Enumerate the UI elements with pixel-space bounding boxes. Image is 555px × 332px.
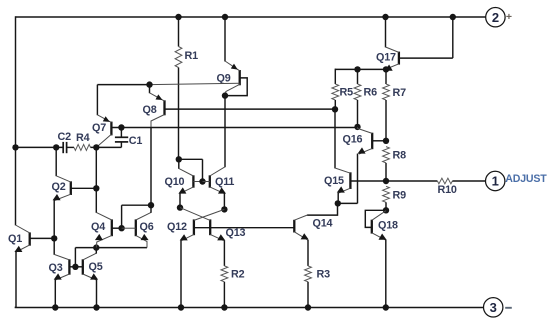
junction Q3 Q5 bases: [72, 264, 78, 270]
svg-text:Q9: Q9: [217, 73, 231, 85]
wire R8 bottom to adjust node: [385, 163, 387, 181]
label R10: [438, 184, 457, 196]
transistor Q5: [83, 253, 98, 280]
wire Q15 emitter down: [337, 193, 339, 204]
junction Q2 base / Q4 collector: [93, 185, 99, 191]
wire Q12 emitter to - rail: [180, 240, 182, 307]
svg-text:Q18: Q18: [378, 219, 398, 231]
label Q3: [49, 262, 63, 274]
label C1: [129, 135, 143, 147]
wire Q9 emitter from + rail: [224, 17, 226, 62]
svg-text:R5: R5: [340, 86, 354, 98]
wire Q1 base: [30, 237, 55, 239]
label Q9: [217, 73, 231, 85]
label Q15: [324, 175, 344, 187]
transistor Q15: [335, 168, 350, 193]
svg-text:R8: R8: [393, 149, 407, 161]
transistor Q12: [180, 209, 225, 240]
capacitor C1: [115, 128, 128, 148]
wire Q11 base stub: [203, 181, 210, 183]
label Q10: [165, 176, 185, 188]
wire Q4 base: [112, 227, 122, 229]
label Q1: [8, 233, 22, 245]
wire R10 to pin 1: [452, 180, 485, 182]
svg-text:R3: R3: [317, 268, 331, 280]
wire current-mirror rail (Q3Q5 bases/Q4 emitter/Q6 emitter): [75, 247, 147, 249]
wire Q16 base: [372, 140, 386, 142]
resistor R8: [383, 147, 390, 163]
label R6: [364, 86, 378, 98]
label R3: [317, 268, 331, 280]
wire Q4 collector column: [95, 147, 97, 212]
junction Q4 Q6 bases: [118, 225, 124, 231]
transistor Q17: [385, 47, 399, 71]
wire Q3 Q5 base tie: [69, 266, 82, 268]
junction Q4 emitter / Q5 collector: [93, 244, 99, 250]
junction Q11 emitter / Q12 collector: [221, 206, 227, 212]
svg-text:Q1: Q1: [8, 233, 22, 245]
svg-text:Q4: Q4: [91, 221, 105, 233]
transistor Q2: [53, 176, 71, 201]
wire R6 top stub: [357, 69, 359, 84]
transistor Q11: [210, 167, 226, 194]
junction R7 top / Q17 emitter: [383, 66, 389, 72]
label R4: [76, 132, 90, 144]
wire Q17 base: [399, 17, 453, 58]
resistor R6: [354, 84, 361, 100]
label Q2: [52, 181, 66, 193]
junction node B (Q7/Q8 emitters / Q9 base): [146, 81, 152, 87]
svg-text:R4: R4: [76, 132, 90, 144]
label Q18: [378, 219, 398, 231]
wire Q2 collector: [55, 147, 57, 176]
resistor R2: [221, 266, 228, 282]
label -: [505, 307, 512, 309]
label R1: [185, 50, 199, 62]
wire Q14 emitter to R3: [307, 240, 309, 266]
label Q14: [313, 217, 333, 229]
wire adjust line (Q15 base to R10): [350, 180, 437, 182]
resistor R7: [383, 84, 390, 100]
transistor Q4: [95, 212, 112, 247]
wire Q2 base to Q4 collector column: [71, 187, 97, 189]
svg-text:Q15: Q15: [324, 175, 344, 187]
wire Q10 collector: [178, 159, 180, 169]
label Q4: [91, 221, 105, 233]
junction R2 / - rail: [221, 304, 227, 310]
wire Q13 emitter to R2: [223, 240, 225, 266]
label Q16: [343, 133, 363, 145]
junction R9 bottom / Q18: [383, 207, 389, 213]
svg-text:R6: R6: [364, 86, 378, 98]
transistor Q16: [358, 127, 373, 154]
wire C2 to R4: [67, 146, 74, 148]
wire + rail (top, pin 2 net): [16, 16, 486, 18]
label +: [506, 11, 512, 23]
junction top rail / Q17 collector: [382, 14, 388, 20]
junction adjust node (R8/R9/R10/Q15 base): [383, 178, 389, 184]
svg-text:Q6: Q6: [140, 221, 154, 233]
label Q5: [89, 261, 103, 273]
svg-text:+: +: [506, 11, 512, 23]
svg-text:Q11: Q11: [215, 176, 234, 188]
label Q7: [92, 122, 106, 134]
junction C2 / Q2 collector: [53, 144, 59, 150]
wire R1 bottom to node A: [178, 68, 180, 160]
svg-text:R7: R7: [393, 87, 407, 99]
junction Q9 collector/base node: [222, 92, 228, 98]
label R7: [393, 87, 407, 99]
svg-text:Q17: Q17: [376, 51, 396, 63]
junction Q6 collector / Q4 Q6 bases: [148, 202, 154, 208]
wire Q1 emitter to - rail: [15, 252, 17, 307]
svg-text:R10: R10: [438, 184, 457, 196]
svg-text:Q10: Q10: [165, 176, 185, 188]
wire Q9 base to node A area: [150, 83, 240, 84]
transistor Q8: [150, 93, 165, 128]
label Q13: [226, 227, 246, 239]
wire R1 top: [178, 17, 180, 47]
junction top rail / R1: [175, 14, 181, 20]
junction C1 top: [118, 124, 124, 130]
svg-text:Q2: Q2: [52, 181, 66, 193]
svg-text:C2: C2: [58, 131, 72, 143]
svg-text:Q5: Q5: [89, 261, 103, 273]
transistor Q18: [365, 210, 386, 240]
junction R6 top: [354, 66, 360, 72]
wire Q17 collector: [385, 17, 387, 47]
wire Q11 emitter down: [223, 193, 225, 209]
label R9: [393, 190, 407, 202]
wire Q12/Q13/Q14 base line: [194, 227, 294, 229]
wire Q6 collector up: [150, 205, 152, 213]
wire Q11 collector column: [224, 96, 226, 168]
capacitor C2: [63, 142, 66, 153]
wire R3 bottom to - rail: [307, 282, 309, 307]
wire left rail (from + rail down to Q1 collector): [15, 16, 17, 225]
wire Q14 collector to emitter-follower node: [307, 203, 337, 215]
resistor R3: [305, 266, 312, 282]
wire Q2 emitter down to Q3 collector: [53, 200, 55, 255]
resistor R5: [332, 84, 339, 100]
wire Q3/Q5 base up to current-mirror rail: [74, 248, 76, 267]
svg-text:1: 1: [492, 174, 499, 189]
svg-text:Q14: Q14: [313, 217, 333, 229]
wire Q16 emitter down: [357, 154, 359, 204]
wire R7 top stub: [385, 69, 387, 84]
wire Q10 emitter down: [179, 193, 181, 208]
label Q11: [215, 176, 234, 188]
svg-text:ADJUST: ADJUST: [505, 173, 547, 185]
junction Q10 Q11 bases: [199, 178, 205, 184]
label R8: [393, 149, 407, 161]
wire Q8 collector to Q4/Q6 base rail: [150, 128, 152, 206]
junction node C (R4 / Q7 collector / Q4 collector column): [93, 144, 99, 150]
junction left rail / C2 branch: [12, 144, 18, 150]
svg-text:Q12: Q12: [167, 221, 187, 233]
wire node B to Q7 emitter: [97, 85, 149, 116]
transistor Q6: [136, 212, 151, 247]
junction Q12 emitter / - rail: [178, 304, 184, 310]
transistor Q1: [14, 225, 29, 252]
label C2: [58, 131, 72, 143]
wire Q8 emitter: [149, 85, 151, 94]
junction R3 / - rail: [305, 304, 311, 310]
wire R7 bottom to Q16 base node: [385, 100, 387, 141]
wire emitter node to Q16 emitter: [338, 202, 358, 204]
wire node A to Q10/Q11 base column: [179, 159, 203, 181]
resistor R1: [175, 47, 182, 68]
svg-text:Q3: Q3: [49, 262, 63, 274]
svg-text:R1: R1: [185, 50, 199, 62]
svg-text:R9: R9: [393, 190, 407, 202]
wire R5 bottom: [334, 100, 336, 109]
svg-text:Q7: Q7: [92, 122, 106, 134]
junction Q16 base / R7-R8: [383, 138, 389, 144]
wire R2 bottom to - rail: [223, 282, 225, 307]
label Q17: [376, 51, 396, 63]
junction Q3 emitter / - rail: [52, 304, 58, 310]
svg-text:C1: C1: [129, 135, 143, 147]
svg-text:2: 2: [492, 10, 499, 25]
wire R4 to node C: [91, 146, 122, 148]
junction Q5 emitter / - rail: [93, 304, 99, 310]
resistor R4: [74, 144, 91, 150]
wire R5/R6/R7 top rail: [335, 69, 386, 84]
junction node A (R1 / Q10 collector / Q10 Q11 bases): [176, 156, 182, 162]
junction Q1 base: [51, 235, 57, 241]
wire Q8 base to R5 bottom: [165, 108, 336, 110]
label Q6: [140, 221, 154, 233]
svg-text:R2: R2: [231, 268, 245, 280]
transistor Q7: [96, 115, 111, 148]
label Q8: [143, 104, 157, 116]
wire Q6 base stub: [122, 227, 136, 229]
svg-text:Q16: Q16: [343, 133, 363, 145]
transistor Q14: [294, 215, 308, 240]
wire Q15 collector column: [334, 109, 336, 168]
transistor Q13: [180, 208, 225, 241]
pin 2 (+): [486, 8, 505, 27]
transistor Q9: [225, 61, 247, 96]
svg-text:3: 3: [490, 300, 497, 315]
wire R9 bottom: [385, 202, 387, 210]
label Q12: [167, 221, 187, 233]
wire Q4/Q6 base up: [122, 205, 151, 228]
wire Q7 base / C1 / R6-bottom net: [111, 127, 357, 129]
junction Q15/Q16 emitters / Q14 collector: [335, 200, 341, 206]
junction top rail / Q17 base: [450, 14, 456, 20]
wire Q5 collector up: [95, 248, 97, 254]
junction R6 bottom / Q16 collector: [354, 124, 360, 130]
wire - rail (bottom, pin 3 net): [15, 306, 484, 309]
pin 1 (ADJUST): [486, 171, 505, 190]
junction top rail / Q9 emitter: [222, 14, 228, 20]
wire R6 bottom: [357, 100, 359, 127]
label R2: [231, 268, 245, 280]
label R5: [340, 86, 354, 98]
resistor R9: [383, 186, 390, 202]
wire left rail to C2: [16, 146, 64, 148]
junction Q10 emitter / Q13 collector: [177, 204, 183, 210]
svg-text:Q8: Q8: [143, 104, 157, 116]
junction Q18 emitter / - rail: [383, 304, 389, 310]
transistor Q10: [178, 168, 193, 193]
wire Q5 emitter to - rail: [96, 280, 98, 307]
svg-text:Q13: Q13: [226, 227, 246, 239]
wire Q18 emitter to - rail: [385, 239, 387, 307]
junction R5 bottom / Q8 base / Q15 collector: [332, 106, 338, 112]
label ADJUST: [505, 173, 547, 185]
resistor R10: [437, 178, 452, 184]
transistor Q3: [54, 254, 70, 280]
pin 3 (-): [484, 298, 503, 317]
wire Q3 emitter to - rail: [54, 280, 56, 307]
wire Q10 base stub: [193, 181, 202, 183]
